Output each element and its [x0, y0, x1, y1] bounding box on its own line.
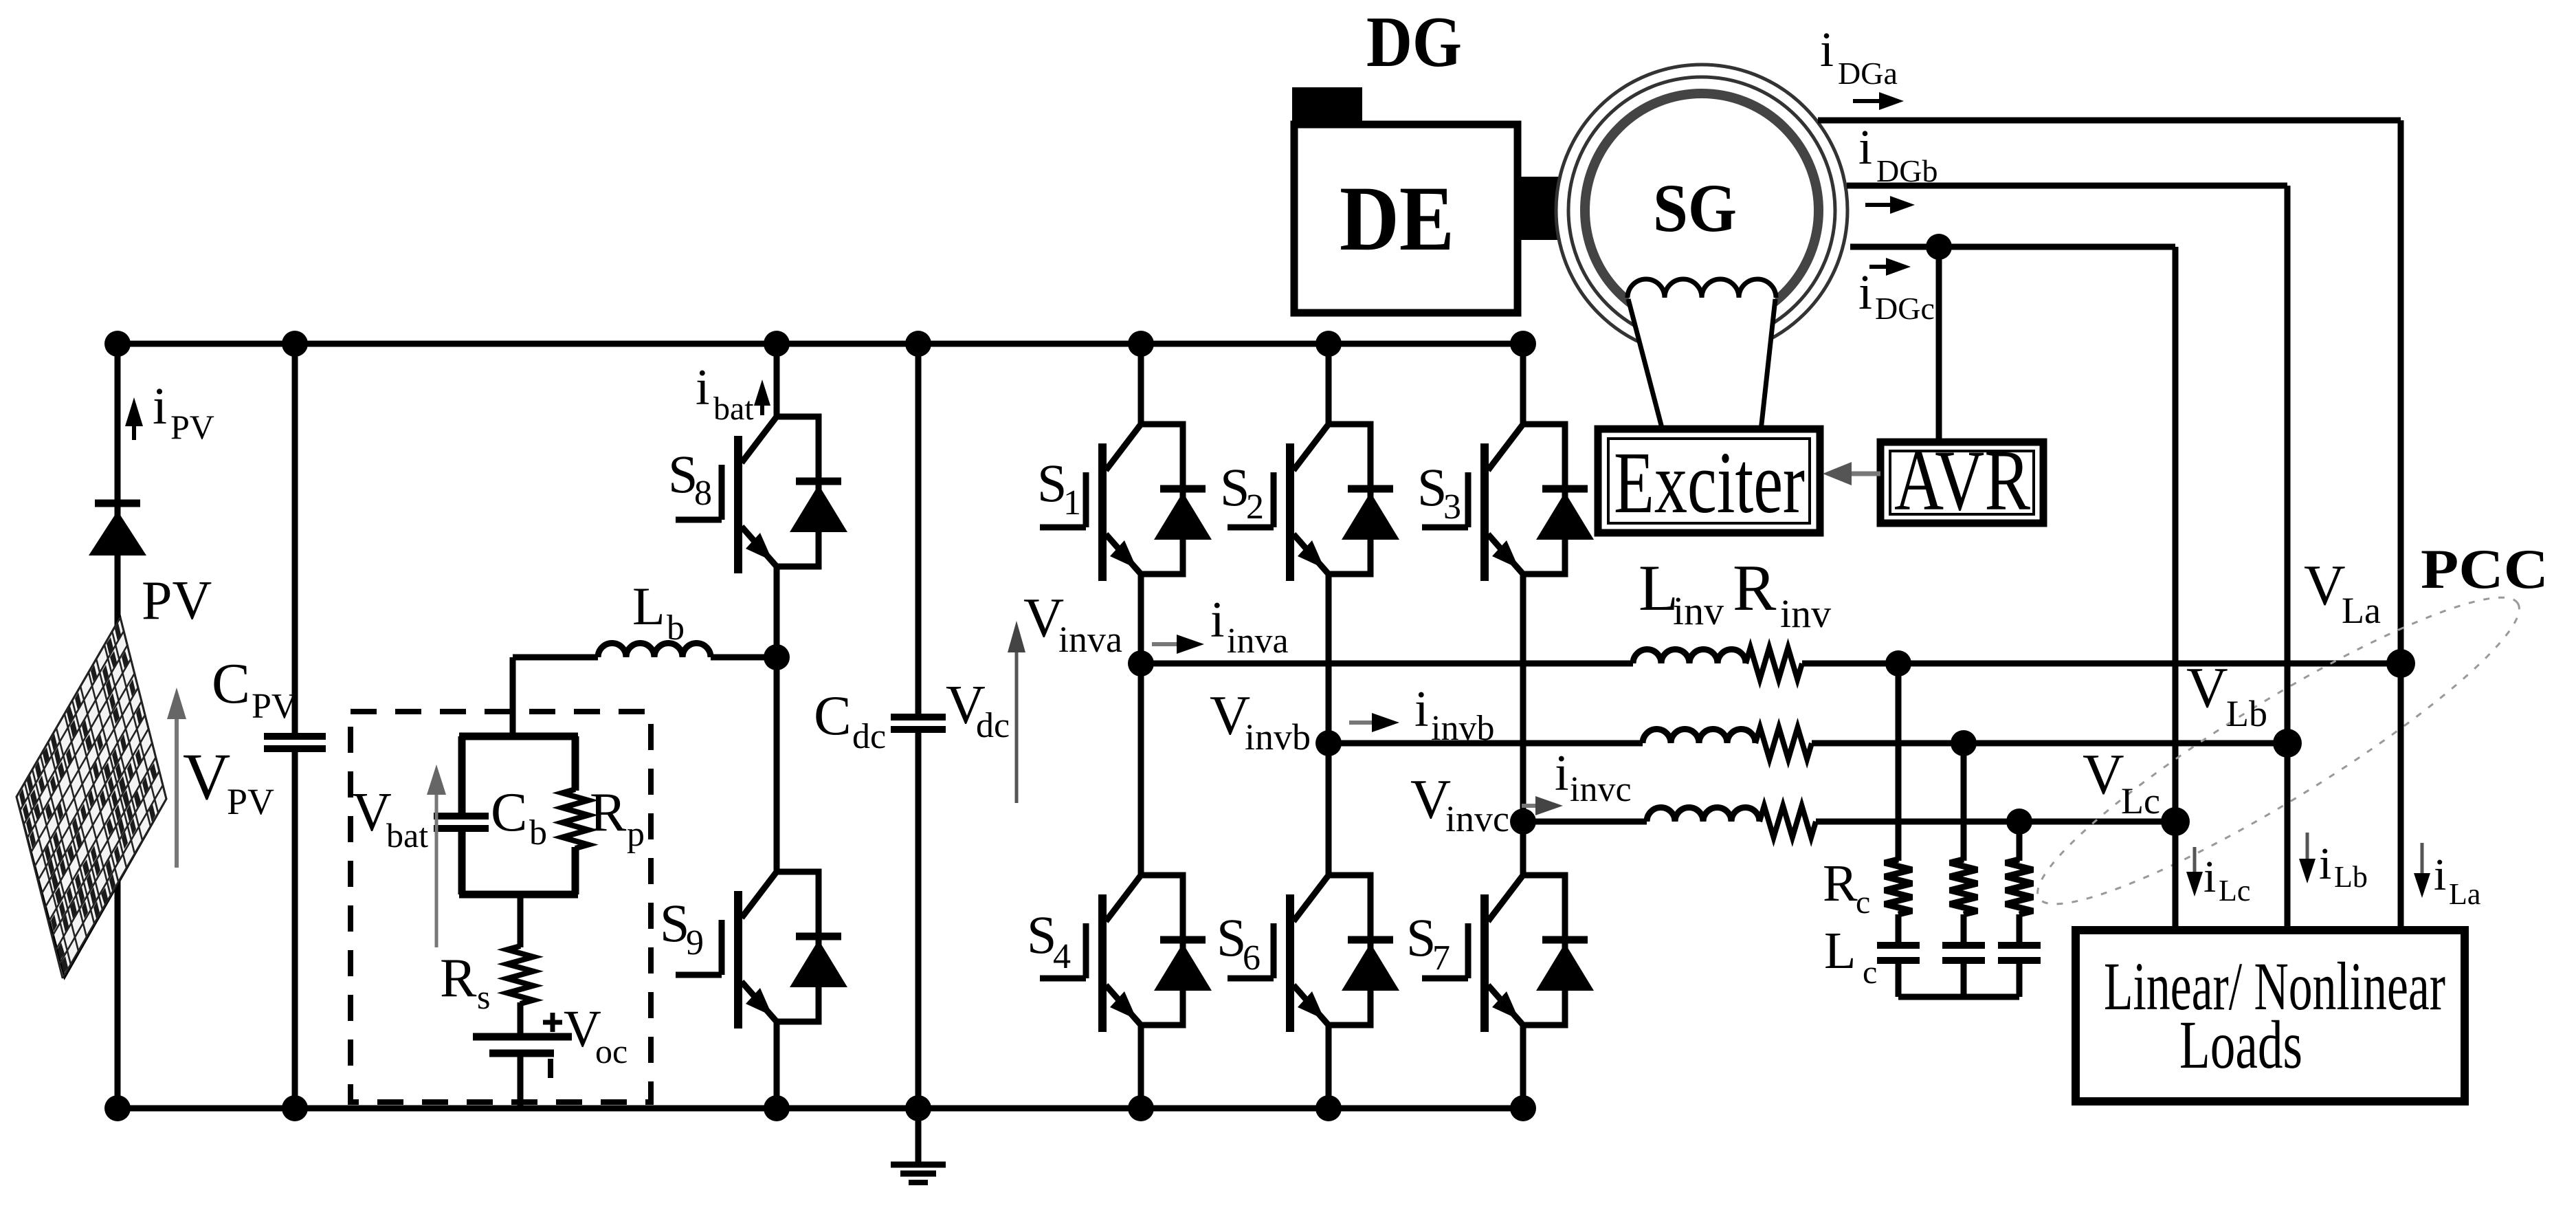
svg-text:R: R [1823, 855, 1858, 912]
inductor L_inv phase A [1633, 650, 1746, 664]
svg-text:S: S [668, 444, 698, 504]
wire filter branch phase A lower [1896, 960, 1902, 997]
current arrow i_DGb [1865, 203, 1894, 207]
svg-text:invb: invb [1245, 716, 1311, 758]
node DG phase c / AVR tap [1926, 234, 1952, 260]
node top bus x=1660 [1128, 331, 1154, 357]
wire block to R_s [518, 894, 524, 947]
battery plus sign [543, 1020, 562, 1025]
svg-text:R: R [1733, 551, 1777, 624]
wire to ground [915, 1108, 922, 1165]
resistor R_inv phase A [1746, 648, 1802, 679]
svg-text:V: V [2083, 742, 2124, 806]
capacitor C_dc [891, 714, 946, 720]
svg-text:dc: dc [852, 717, 886, 756]
svg-text:L: L [632, 576, 665, 636]
wire filter branch phase C lower [2017, 960, 2023, 997]
wire C_PV branch lower [292, 749, 298, 1108]
wire C_b/R_p block bottom [459, 891, 578, 899]
Exciter box [1598, 429, 1820, 533]
svg-text:7: 7 [1432, 938, 1450, 978]
svg-text:R: R [440, 948, 477, 1009]
svg-text:DG: DG [1366, 1, 1462, 82]
svg-text:DGb: DGb [1876, 153, 1937, 188]
svg-text:9: 9 [686, 923, 704, 962]
svg-text:invb: invb [1431, 709, 1494, 748]
svg-text:i: i [1858, 265, 1872, 320]
wire filter branch phase B middle [1961, 914, 1967, 945]
ground symbol [891, 1162, 946, 1168]
svg-text:i: i [2434, 850, 2446, 900]
svg-text:6: 6 [1243, 938, 1261, 978]
wire L_b left segment [513, 654, 598, 661]
svg-text:S: S [1027, 905, 1056, 965]
wire bottom DC bus [118, 1105, 1523, 1112]
svg-text:inv: inv [1673, 588, 1724, 633]
transistor S6 (IGBT with diode) [1228, 875, 1399, 1032]
svg-text:S: S [660, 893, 689, 953]
wire DG phase c horizontal [1850, 244, 2175, 250]
capacitor L_c phase A [1877, 942, 1920, 949]
arrow AVR to Exciter (gray) [1847, 472, 1880, 476]
svg-text:i: i [153, 377, 167, 435]
node top bus x=171 [104, 331, 131, 357]
svg-text:bat: bat [386, 816, 428, 855]
battery minus tick [548, 1059, 553, 1078]
capacitor C_PV [264, 733, 326, 740]
resistor R_inv phase C [1759, 806, 1816, 837]
svg-text:PV: PV [227, 781, 274, 822]
Linear/Nonlinear Loads box [2076, 930, 2465, 1101]
svg-text:S: S [1217, 907, 1246, 967]
PCC ellipse (dashed) [2013, 561, 2544, 940]
transistor S4 (IGBT with diode) [1040, 875, 1212, 1032]
wire C_dc branch lower [915, 729, 922, 1108]
svg-text:C: C [491, 782, 527, 843]
wire PCC a to loads [2398, 663, 2404, 930]
node phase output 3 [1510, 808, 1536, 835]
svg-text:b: b [667, 608, 685, 648]
svg-text:i: i [2203, 852, 2216, 902]
wire AVR sense line [1936, 247, 1942, 442]
svg-text:i: i [1555, 745, 1569, 802]
wire inverter leg S7 bottom [1520, 1025, 1526, 1108]
node bottom bus x=1130 [764, 1095, 790, 1121]
svg-text:i: i [1820, 22, 1834, 77]
wire PCC b to loads [2285, 743, 2291, 930]
PV panel (solar array) [16, 617, 166, 978]
wire PCC c to loads [2173, 822, 2179, 930]
node bottom bus x=429 [282, 1095, 308, 1121]
wire filter branch phase B upper [1961, 743, 1967, 861]
node PCC phase b (V_Lb) [2273, 729, 2302, 758]
svg-text:s: s [477, 978, 490, 1016]
wire DG phase c vertical to PCC [2173, 247, 2179, 822]
wire filter branch phase A upper [1896, 663, 1902, 861]
svg-text:bat: bat [713, 390, 754, 427]
transistor S1 (IGBT with diode) [1040, 424, 1212, 581]
svg-text:dc: dc [976, 706, 1010, 745]
svg-text:V: V [2186, 656, 2228, 720]
wire DG phase a vertical to PCC [2398, 120, 2404, 663]
wire R_s to battery [518, 1002, 524, 1037]
node top bus x=1130 [764, 331, 790, 357]
wire inverter leg S3 top [1520, 344, 1526, 424]
voltage arrow V_bat (gray) [435, 791, 438, 947]
wire C_dc branch upper [915, 344, 922, 717]
shaft coupling block [1518, 177, 1589, 240]
capacitor C_b [434, 813, 489, 819]
node bottom bus x=171 [104, 1095, 131, 1121]
svg-text:S: S [1406, 907, 1436, 967]
node phase output 1 [1128, 650, 1154, 676]
wire phase A to PCC [1802, 661, 2401, 667]
wire filter branch phase B lower [1961, 960, 1967, 997]
svg-text:inv: inv [1780, 591, 1831, 636]
svg-text:AVR: AVR [1894, 433, 2030, 529]
transistor S2 (IGBT with diode) [1228, 424, 1399, 581]
current arrow i_La [2421, 843, 2424, 877]
svg-text:L: L [1824, 922, 1856, 980]
svg-text:4: 4 [1053, 937, 1071, 976]
wire inverter leg S6 bottom [1326, 1025, 1332, 1108]
voltage arrow V_PV (gray) [175, 715, 179, 868]
svg-text:1: 1 [1063, 483, 1081, 522]
battery V_oc plates [473, 1033, 572, 1041]
wire inverter leg S1 top [1138, 344, 1144, 424]
wire battery leg bottom [774, 1022, 780, 1108]
transistor S9 (IGBT with diode) [676, 872, 847, 1028]
transistor S3 (IGBT with diode) [1422, 424, 1594, 581]
svg-text:inva: inva [1058, 619, 1122, 660]
current arrow i_PV [132, 422, 136, 440]
node bottom bus x=1660 [1128, 1095, 1154, 1121]
transistor S7 (IGBT with diode) [1422, 875, 1594, 1032]
SG winding cone mask [1628, 296, 1775, 432]
battery model dashed box [351, 712, 651, 1102]
svg-text:DE: DE [1340, 168, 1454, 270]
svg-text:SG: SG [1653, 170, 1737, 246]
svg-text:S: S [1220, 457, 1250, 517]
svg-text:Lc: Lc [2219, 874, 2250, 907]
wire C_PV branch upper [292, 344, 298, 736]
wire L_b right segment [711, 654, 777, 661]
svg-text:Lb: Lb [2226, 693, 2267, 734]
svg-text:PV: PV [252, 687, 297, 726]
svg-text:invc: invc [1445, 798, 1509, 839]
wire PV branch vertical [115, 344, 121, 1108]
svg-text:i: i [1210, 592, 1225, 648]
node bottom bus x=2216 [1510, 1095, 1536, 1121]
node battery leg / L_b junction [764, 644, 790, 670]
wire phase C from inverter [1523, 819, 1647, 825]
wire DG phase b vertical to PCC [2285, 186, 2291, 743]
resistor R_c phase B [1950, 859, 1977, 914]
wire winding to exciter right [1761, 299, 1775, 430]
resistor R_c phase A [1885, 859, 1912, 914]
wire battery leg middle [774, 566, 780, 872]
svg-text:i: i [696, 360, 710, 416]
svg-text:3: 3 [1443, 487, 1461, 527]
svg-text:i: i [1858, 120, 1872, 175]
wire phase B to PCC [1812, 740, 2287, 747]
node top bus x=429 [282, 331, 308, 357]
svg-text:c: c [1863, 954, 1877, 991]
svg-text:Exciter: Exciter [1614, 434, 1805, 531]
wire DG phase a horizontal [1818, 118, 2401, 124]
SG rotor thick circle [1585, 93, 1819, 327]
resistor R_s [507, 946, 533, 1004]
node top bus x=2216 [1510, 331, 1536, 357]
resistor R_p [562, 789, 588, 848]
svg-text:i: i [2319, 839, 2331, 889]
wire C_b branch lower [458, 828, 466, 894]
svg-text:invc: invc [1570, 770, 1632, 809]
svg-text:p: p [627, 815, 645, 854]
current arrow i_Lc [2193, 847, 2197, 876]
svg-text:V: V [2304, 553, 2346, 617]
wire filter branch phase A middle [1896, 914, 1902, 945]
svg-text:2: 2 [1246, 487, 1264, 527]
DE exhaust block [1292, 87, 1362, 126]
current arrow i_invc [1522, 804, 1540, 808]
svg-text:b: b [529, 813, 547, 852]
svg-text:inva: inva [1227, 621, 1289, 661]
wire phase A from inverter [1141, 661, 1633, 667]
SG stator outer circle [1556, 65, 1847, 356]
current arrow i_DGc [1869, 265, 1890, 269]
node bottom bus x=1336 [905, 1095, 931, 1121]
current arrow i_bat [760, 401, 764, 415]
resistor R_c phase C [2006, 859, 2033, 914]
wire from L_b down into battery box [510, 657, 516, 736]
inductor L_inv phase B [1643, 729, 1755, 744]
svg-text:8: 8 [694, 474, 712, 513]
voltage arrow v_dc (gray) [1015, 648, 1019, 803]
SG field winding [1628, 279, 1776, 298]
svg-text:La: La [2449, 877, 2480, 911]
wire inverter leg S4 bottom [1138, 1025, 1144, 1108]
wire inverter leg S3-S7 middle [1520, 574, 1526, 875]
AVR box [1880, 442, 2043, 523]
svg-text:C: C [814, 684, 852, 747]
current arrow i_Lb [2306, 833, 2309, 863]
current arrow i_invb [1349, 720, 1376, 725]
wire R_p branch lower [572, 847, 579, 894]
node bottom bus x=1933 [1315, 1095, 1342, 1121]
wire battery to bottom bus [518, 1053, 524, 1108]
wire DG phase b horizontal [1847, 183, 2287, 189]
svg-text:R: R [590, 782, 627, 843]
wire filter star connection [1898, 994, 2019, 1000]
diode D_PV (pointing up) [95, 500, 140, 507]
svg-text:i: i [1414, 681, 1429, 738]
svg-text:c: c [1856, 884, 1870, 921]
current arrow i_DGa [1853, 99, 1883, 103]
wire C_b/R_p block top [459, 733, 578, 740]
inductor L_b [598, 643, 711, 657]
DE box (diesel engine) [1294, 124, 1518, 313]
wire filter branch phase C middle [2017, 914, 2023, 945]
node phase output 2 [1315, 730, 1342, 756]
svg-text:oc: oc [595, 1032, 628, 1070]
svg-text:La: La [2342, 590, 2381, 631]
SG stator second circle [1568, 77, 1835, 344]
svg-text:Loads: Loads [2179, 1006, 2302, 1083]
svg-text:Lb: Lb [2334, 860, 2368, 894]
node phase B filter tap [1951, 730, 1977, 756]
node PCC phase a (V_La) [2386, 649, 2415, 678]
svg-text:S: S [1037, 453, 1067, 513]
node top bus x=1336 [905, 331, 931, 357]
svg-text:PV: PV [142, 571, 212, 631]
node top bus x=1933 [1315, 331, 1342, 357]
node phase C filter tap [2006, 808, 2032, 835]
wire top DC bus [118, 341, 1523, 347]
svg-text:PCC: PCC [2421, 538, 2549, 600]
capacitor L_c phase C [1998, 942, 2041, 949]
wire phase C to PCC [1816, 819, 2175, 825]
wire inverter leg S1-S4 middle [1138, 574, 1144, 875]
node phase A filter tap [1885, 650, 1911, 676]
capacitor L_c phase B [1942, 942, 1985, 949]
svg-text:DGa: DGa [1838, 56, 1898, 91]
wire inverter leg S2 top [1326, 344, 1332, 424]
svg-text:C: C [212, 652, 250, 716]
inductor L_inv phase C [1647, 808, 1759, 822]
svg-text:DGc: DGc [1875, 291, 1935, 326]
wire inverter leg S2-S6 middle [1326, 574, 1332, 875]
current arrow i_inva [1152, 642, 1181, 646]
wire phase B from inverter [1329, 740, 1643, 747]
wire battery leg top [774, 344, 780, 417]
wire winding to exciter left [1628, 299, 1663, 430]
resistor R_inv phase B [1755, 727, 1812, 759]
wire filter branch phase C upper [2017, 822, 2023, 861]
wire R_p branch upper [572, 736, 579, 791]
svg-text:V: V [183, 740, 230, 813]
node PCC phase c (V_Lc) [2161, 807, 2190, 836]
svg-text:PV: PV [170, 408, 214, 446]
svg-text:Lc: Lc [2121, 780, 2160, 822]
svg-text:S: S [1417, 457, 1447, 517]
wire C_b branch upper [458, 736, 466, 815]
transistor S8 (IGBT with diode) [676, 417, 847, 573]
